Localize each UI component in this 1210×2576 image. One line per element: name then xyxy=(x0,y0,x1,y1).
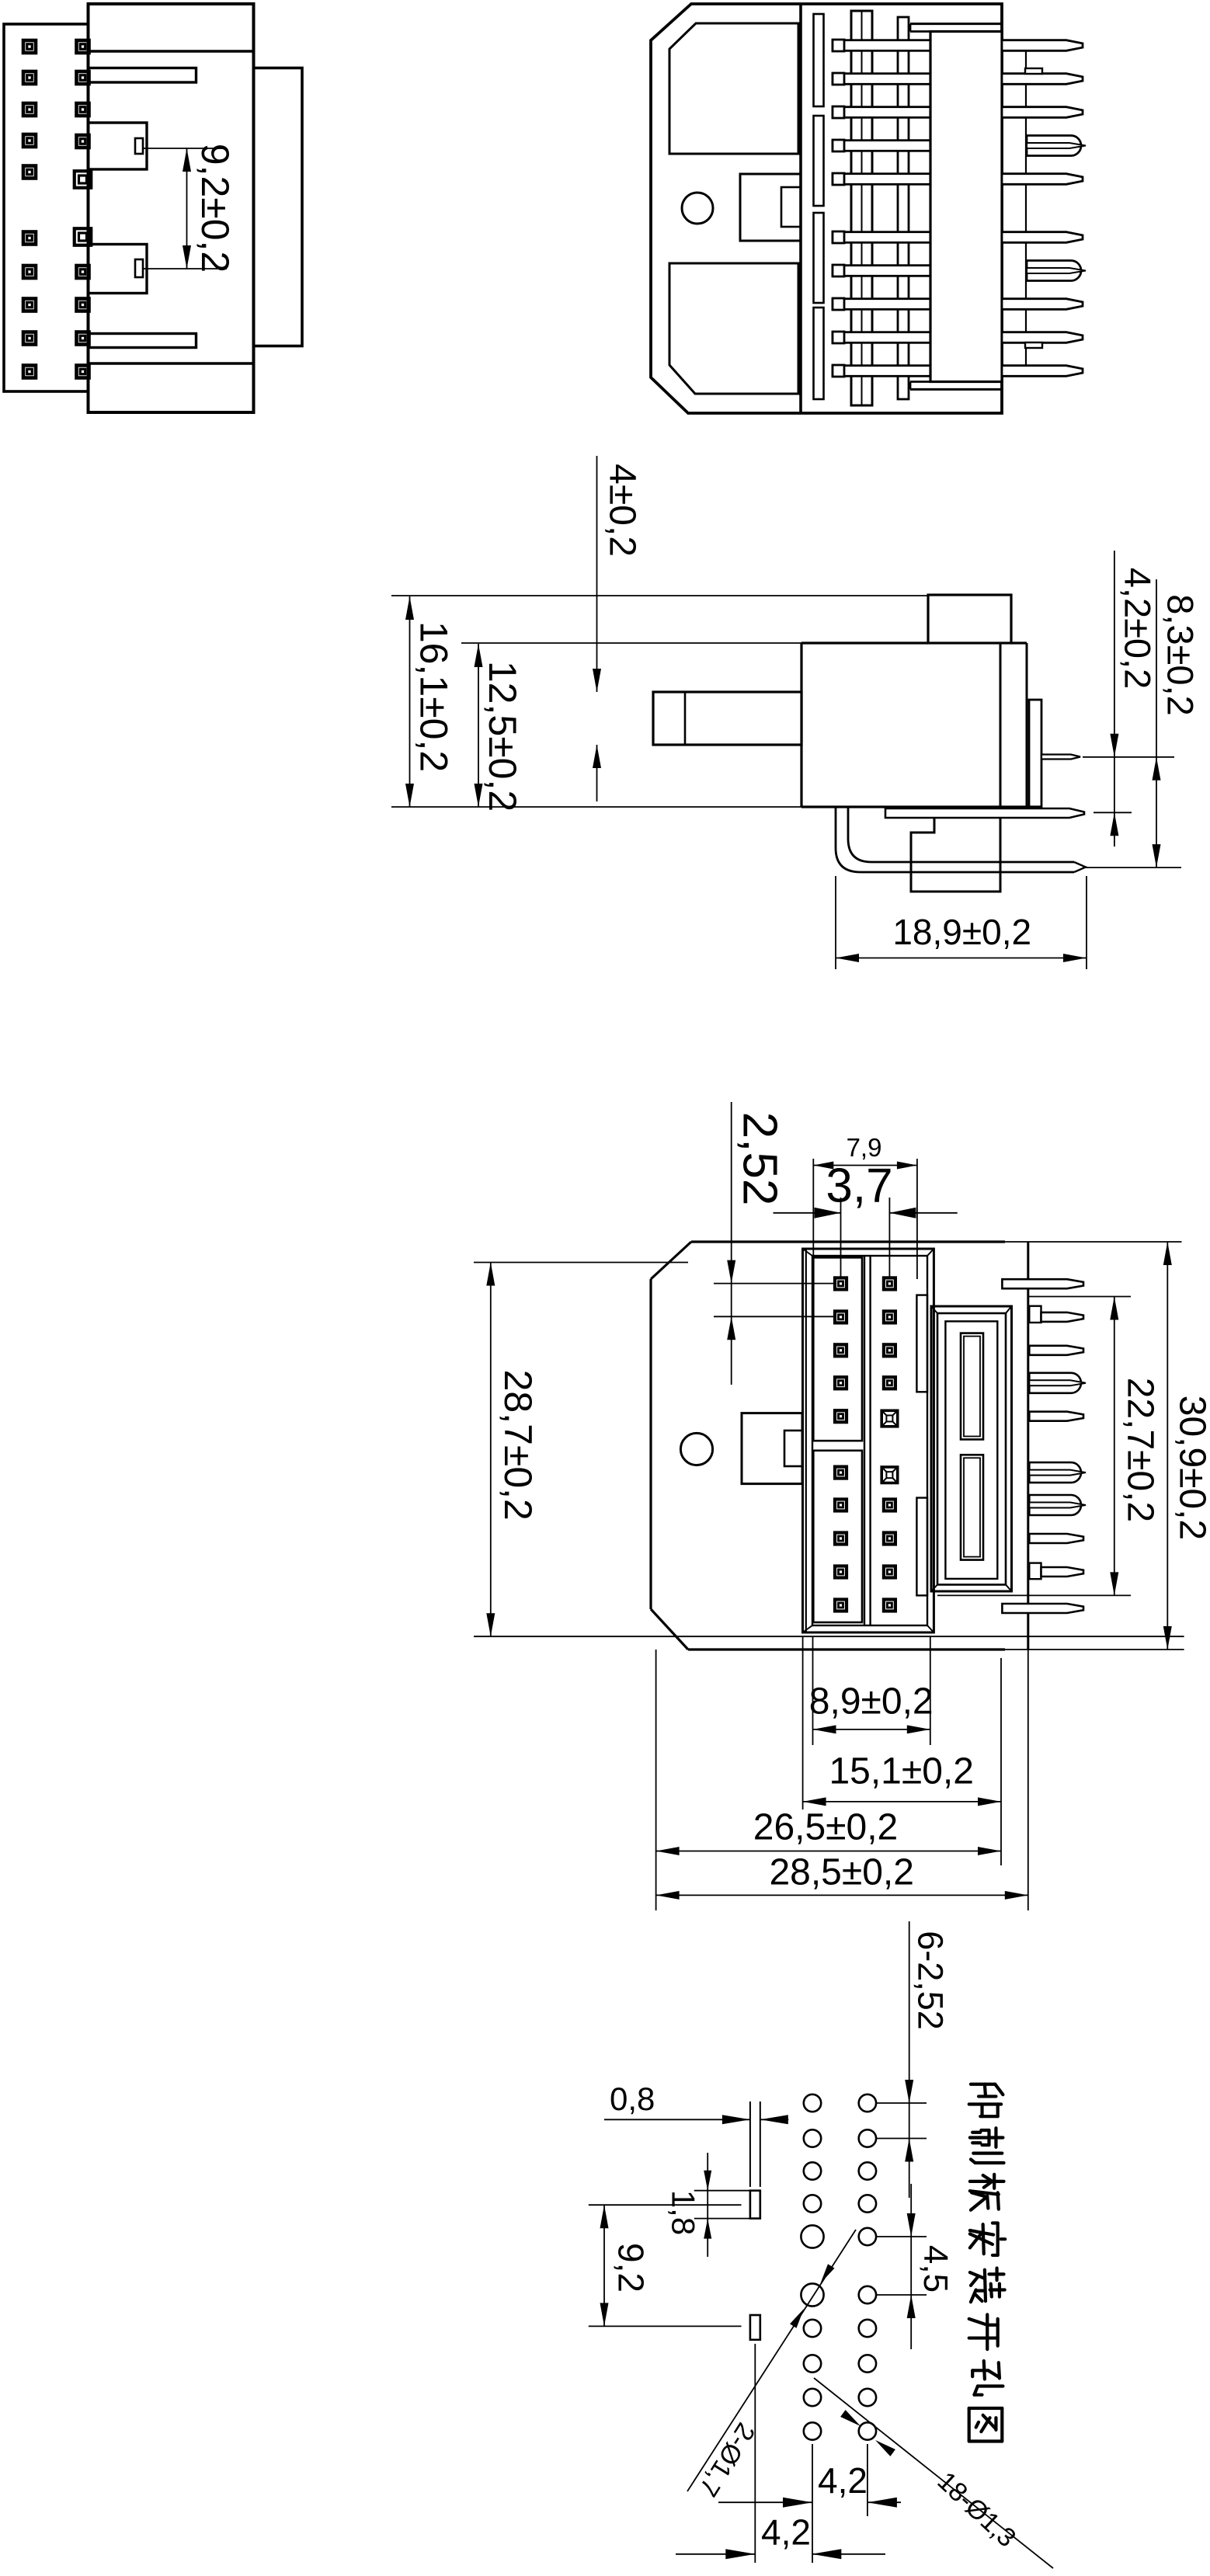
view4 dimension 28,7±0,2 xyxy=(474,1263,1184,1637)
svg-text:30,9±0,2: 30,9±0,2 xyxy=(1171,1396,1210,1541)
view4 receptacle slot lower xyxy=(961,1455,983,1559)
view2 plate top lip xyxy=(910,24,1002,32)
view4 tongue xyxy=(742,1413,802,1484)
view2 hole circle xyxy=(682,193,713,224)
drill holes right column xyxy=(859,2095,876,2440)
view3 dimension 4,2±0,2 xyxy=(1110,551,1158,846)
svg-text:15,1±0,2: 15,1±0,2 xyxy=(829,1751,974,1792)
view3 support block xyxy=(911,807,1000,892)
view4 pin squares right column xyxy=(881,1278,898,1611)
view2 upper cavity xyxy=(669,23,798,154)
svg-text:12,5±0,2: 12,5±0,2 xyxy=(481,661,524,812)
svg-text:4,2±0,2: 4,2±0,2 xyxy=(1118,568,1159,689)
view4 dimension 15,1±0,2 xyxy=(803,1636,1001,1865)
drill dimension 4,2 upper xyxy=(718,2444,901,2516)
view3 top tab xyxy=(928,595,1011,643)
view1 pin squares left column xyxy=(23,40,36,378)
svg-text:0,8: 0,8 xyxy=(610,2081,655,2117)
view3 dimension 16,1±0,2 xyxy=(405,596,455,807)
svg-text:28,7±0,2: 28,7±0,2 xyxy=(496,1370,540,1521)
view1 latch 1 xyxy=(89,123,148,169)
svg-text:8,9±0,2: 8,9±0,2 xyxy=(809,1681,934,1723)
view1 connector body side view xyxy=(89,4,254,412)
view4 pin squares left column xyxy=(835,1278,847,1611)
svg-text:28,5±0,2: 28,5±0,2 xyxy=(769,1852,914,1893)
view2 lower cavity xyxy=(669,263,798,394)
view4 wall slot upper xyxy=(916,1295,927,1392)
svg-text:22,7±0,2: 22,7±0,2 xyxy=(1120,1378,1161,1523)
view3 dimension 8,3±0,2 xyxy=(1083,579,1201,867)
view4 dimension 2,52 xyxy=(714,1102,835,1385)
view4 dimension 30,9±0,2 xyxy=(1005,1242,1210,1650)
drill slot 2 xyxy=(750,2315,760,2340)
drill leader 18-Ø1,3 xyxy=(814,2378,1053,2568)
view4 dimension 8,9±0,2 xyxy=(809,1636,934,1745)
drill title text (hand-drawn CJK strokes) xyxy=(969,2084,1003,2116)
view4 center divider xyxy=(864,1256,871,1625)
drill dimension 4,5 xyxy=(907,2184,954,2349)
drill dimension 4,2 lower xyxy=(676,2344,885,2563)
view1 bottom slot xyxy=(89,334,196,348)
view1 top slot xyxy=(89,68,196,83)
view3 side plate xyxy=(1029,700,1041,808)
view3 dimension 4±0,2 xyxy=(593,456,642,801)
view2 tongue xyxy=(740,174,801,241)
svg-text:2,52: 2,52 xyxy=(732,1112,786,1206)
view3 dimension 12,5±0,2 xyxy=(475,644,524,812)
view4 sub-block upper xyxy=(813,1257,862,1441)
view4 dimension 28,5±0,2 xyxy=(656,1650,1028,1910)
view3 bent pin xyxy=(836,807,1086,872)
view2 plate bottom lip xyxy=(910,382,1002,390)
view1 latch 2 xyxy=(89,245,148,294)
svg-text:18-Ø1,3: 18-Ø1,3 xyxy=(931,2466,1021,2553)
view3 middle pin xyxy=(885,808,1084,818)
svg-text:16,1±0,2: 16,1±0,2 xyxy=(412,621,455,772)
view1 dimension 9,2±0,2 xyxy=(143,144,237,273)
view4 pin block xyxy=(803,1249,934,1632)
view2 rail B xyxy=(898,17,909,399)
view2 pins xyxy=(1002,40,1086,377)
svg-text:1,8: 1,8 xyxy=(665,2190,701,2235)
view2 rear pin column line xyxy=(1025,50,1027,366)
view3 top pin xyxy=(1041,755,1080,760)
drill dimension 6-2,52 xyxy=(905,1921,950,2198)
svg-text:9,2±0,2: 9,2±0,2 xyxy=(193,144,237,273)
view1 left cover plate xyxy=(4,24,89,391)
view1 pin squares right column xyxy=(75,40,92,378)
drill holes left column xyxy=(801,2095,823,2440)
drill slot 1 xyxy=(750,2191,760,2219)
svg-text:7,9: 7,9 xyxy=(847,1133,882,1162)
svg-text:3,7: 3,7 xyxy=(826,1159,892,1212)
drill stub lines xyxy=(877,2103,927,2295)
drill leader 2-Ø1,7 xyxy=(687,2230,856,2501)
svg-text:6-2,52: 6-2,52 xyxy=(911,1931,951,2030)
view4 receptacle xyxy=(931,1306,1012,1591)
view3 dimension 18,9±0,2 xyxy=(836,876,1087,969)
svg-text:4±0,2: 4±0,2 xyxy=(601,464,642,557)
svg-text:8,3±0,2: 8,3±0,2 xyxy=(1160,594,1201,715)
view4 sub-block lower xyxy=(813,1451,862,1622)
view4 receptacle slot upper xyxy=(961,1333,983,1440)
view3 body xyxy=(391,643,1041,807)
view3 top extension line xyxy=(391,595,928,596)
view4 dimension 3,7 xyxy=(774,1159,958,1277)
view4 right wall xyxy=(1027,1242,1029,1650)
view1 right boss xyxy=(254,68,303,346)
svg-text:9,2: 9,2 xyxy=(610,2243,651,2293)
svg-text:4,5: 4,5 xyxy=(916,2245,954,2293)
view4 hole circle xyxy=(680,1433,712,1465)
view4 dimension 22,7±0,2 xyxy=(937,1297,1161,1596)
svg-text:4,2: 4,2 xyxy=(818,2460,868,2501)
view4 dimension 26,5±0,2 xyxy=(656,1650,1001,1910)
view3 peg arm xyxy=(653,692,801,745)
drill dimension 9,2 xyxy=(589,2205,742,2326)
view4 housing outline xyxy=(651,1242,1005,1650)
view2 housing/pinblock boundary xyxy=(799,4,802,413)
drill slot extension lines xyxy=(750,2101,760,2187)
svg-text:4,2: 4,2 xyxy=(761,2512,811,2553)
view2 rail A xyxy=(851,11,872,405)
drill dimension 0,8 xyxy=(604,2081,788,2124)
view4 wall slot lower xyxy=(916,1498,927,1596)
view2 contact bars xyxy=(833,40,930,377)
svg-text:26,5±0,2: 26,5±0,2 xyxy=(753,1807,899,1848)
view2 front plate xyxy=(930,32,1002,382)
svg-text:18,9±0,2: 18,9±0,2 xyxy=(892,912,1031,952)
view4 pins xyxy=(1002,1279,1086,1613)
view2 housing outline xyxy=(651,4,1002,413)
view4 dimension 7,9 xyxy=(813,1133,917,1320)
view2 thin rail xyxy=(814,14,824,399)
drill dimension 1,8 xyxy=(665,2153,749,2257)
